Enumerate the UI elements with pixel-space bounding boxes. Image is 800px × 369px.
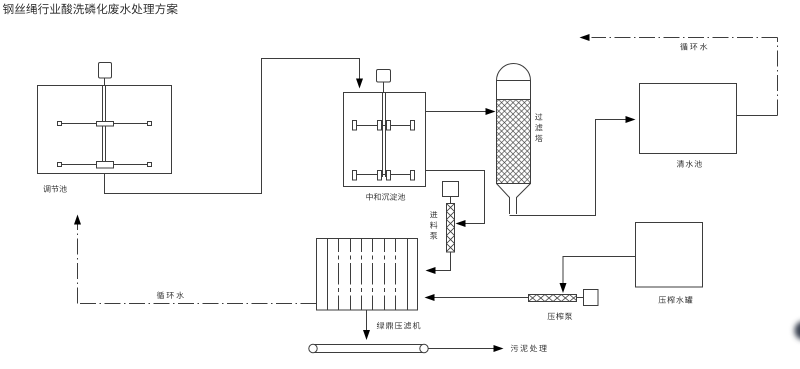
label 过滤塔: [535, 113, 543, 142]
wire filterpress discharge: [366, 310, 368, 332]
filterpress FP1 right end plate: [407, 239, 409, 311]
wire pump PU2 outlet: [433, 297, 529, 299]
pump PU2 压榨泵 screw body: [529, 295, 577, 302]
label title 钢丝绳行业酸洗磷化废水处理方案: [3, 3, 178, 14]
conveyor belt: [313, 344, 424, 346]
label 进料泵: [430, 211, 437, 239]
pump PU1 screw body: [447, 204, 455, 253]
tank T4 压榨水罐: [636, 223, 703, 288]
label 中和沉淀池: [366, 193, 405, 200]
label 循环水 bottom: [157, 292, 184, 299]
filterpress FP1 frame: [317, 239, 418, 311]
wire circulation return top: [737, 115, 778, 117]
mixer M2 upper impeller: [355, 125, 415, 127]
label 板框压滤机 (绿鼎压滤机): [377, 322, 421, 329]
vessel V1 过滤塔 column shell: [497, 64, 531, 184]
label 压榨水罐: [659, 296, 693, 303]
label 污泥处理: [511, 345, 547, 352]
label 调节池: [43, 185, 66, 192]
mixer M1 shaft: [104, 78, 106, 86]
mixer M1 upper impeller: [60, 123, 150, 125]
wire pipe T4->PU2: [563, 257, 636, 286]
watermark blob (clipped at right edge): [795, 321, 800, 340]
mixer M1 lower impeller: [60, 164, 150, 166]
wire circulation return bottom: [78, 303, 317, 305]
pump PU2 motor: [577, 297, 584, 299]
wire pump PU1 outlet: [434, 252, 451, 271]
mixer M2 lower impeller: [355, 174, 415, 176]
tank T1 调节池 body: [38, 86, 172, 174]
wire pipe P2 T2->column: [426, 111, 488, 113]
wire pipe P3 column->T3: [510, 120, 628, 216]
wire sludge out: [428, 348, 495, 350]
label 循环水 top: [680, 43, 707, 50]
mixer M2 motor: [377, 70, 391, 83]
label 压榨泵: [548, 313, 573, 320]
pump PU1 进料泵 motor: [443, 182, 459, 197]
wire pipe P4 T2->pump: [426, 171, 485, 224]
tank T3 清水池: [640, 84, 737, 154]
mixer M1 motor: [99, 63, 112, 79]
filterpress FP1 left end plate: [327, 239, 329, 311]
pump PU1 shaft: [450, 197, 452, 204]
filterpress FP1 plates: [338, 239, 340, 311]
vessel V1 packing crosshatch: [497, 100, 530, 183]
label 清水池: [677, 160, 702, 167]
tank T2 中和沉淀池 body: [344, 93, 426, 187]
vessel V1 cone bottom: [497, 184, 510, 215]
mixer M2 shaft: [383, 82, 385, 93]
wire pipe P1 T1->T2: [105, 59, 360, 194]
